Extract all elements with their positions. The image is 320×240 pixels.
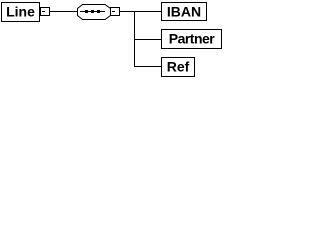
svg-text:IBAN: IBAN bbox=[167, 4, 201, 20]
svg-text:Ref: Ref bbox=[167, 59, 190, 75]
svg-text:Line: Line bbox=[6, 4, 35, 20]
svg-text:Partner: Partner bbox=[169, 31, 216, 47]
